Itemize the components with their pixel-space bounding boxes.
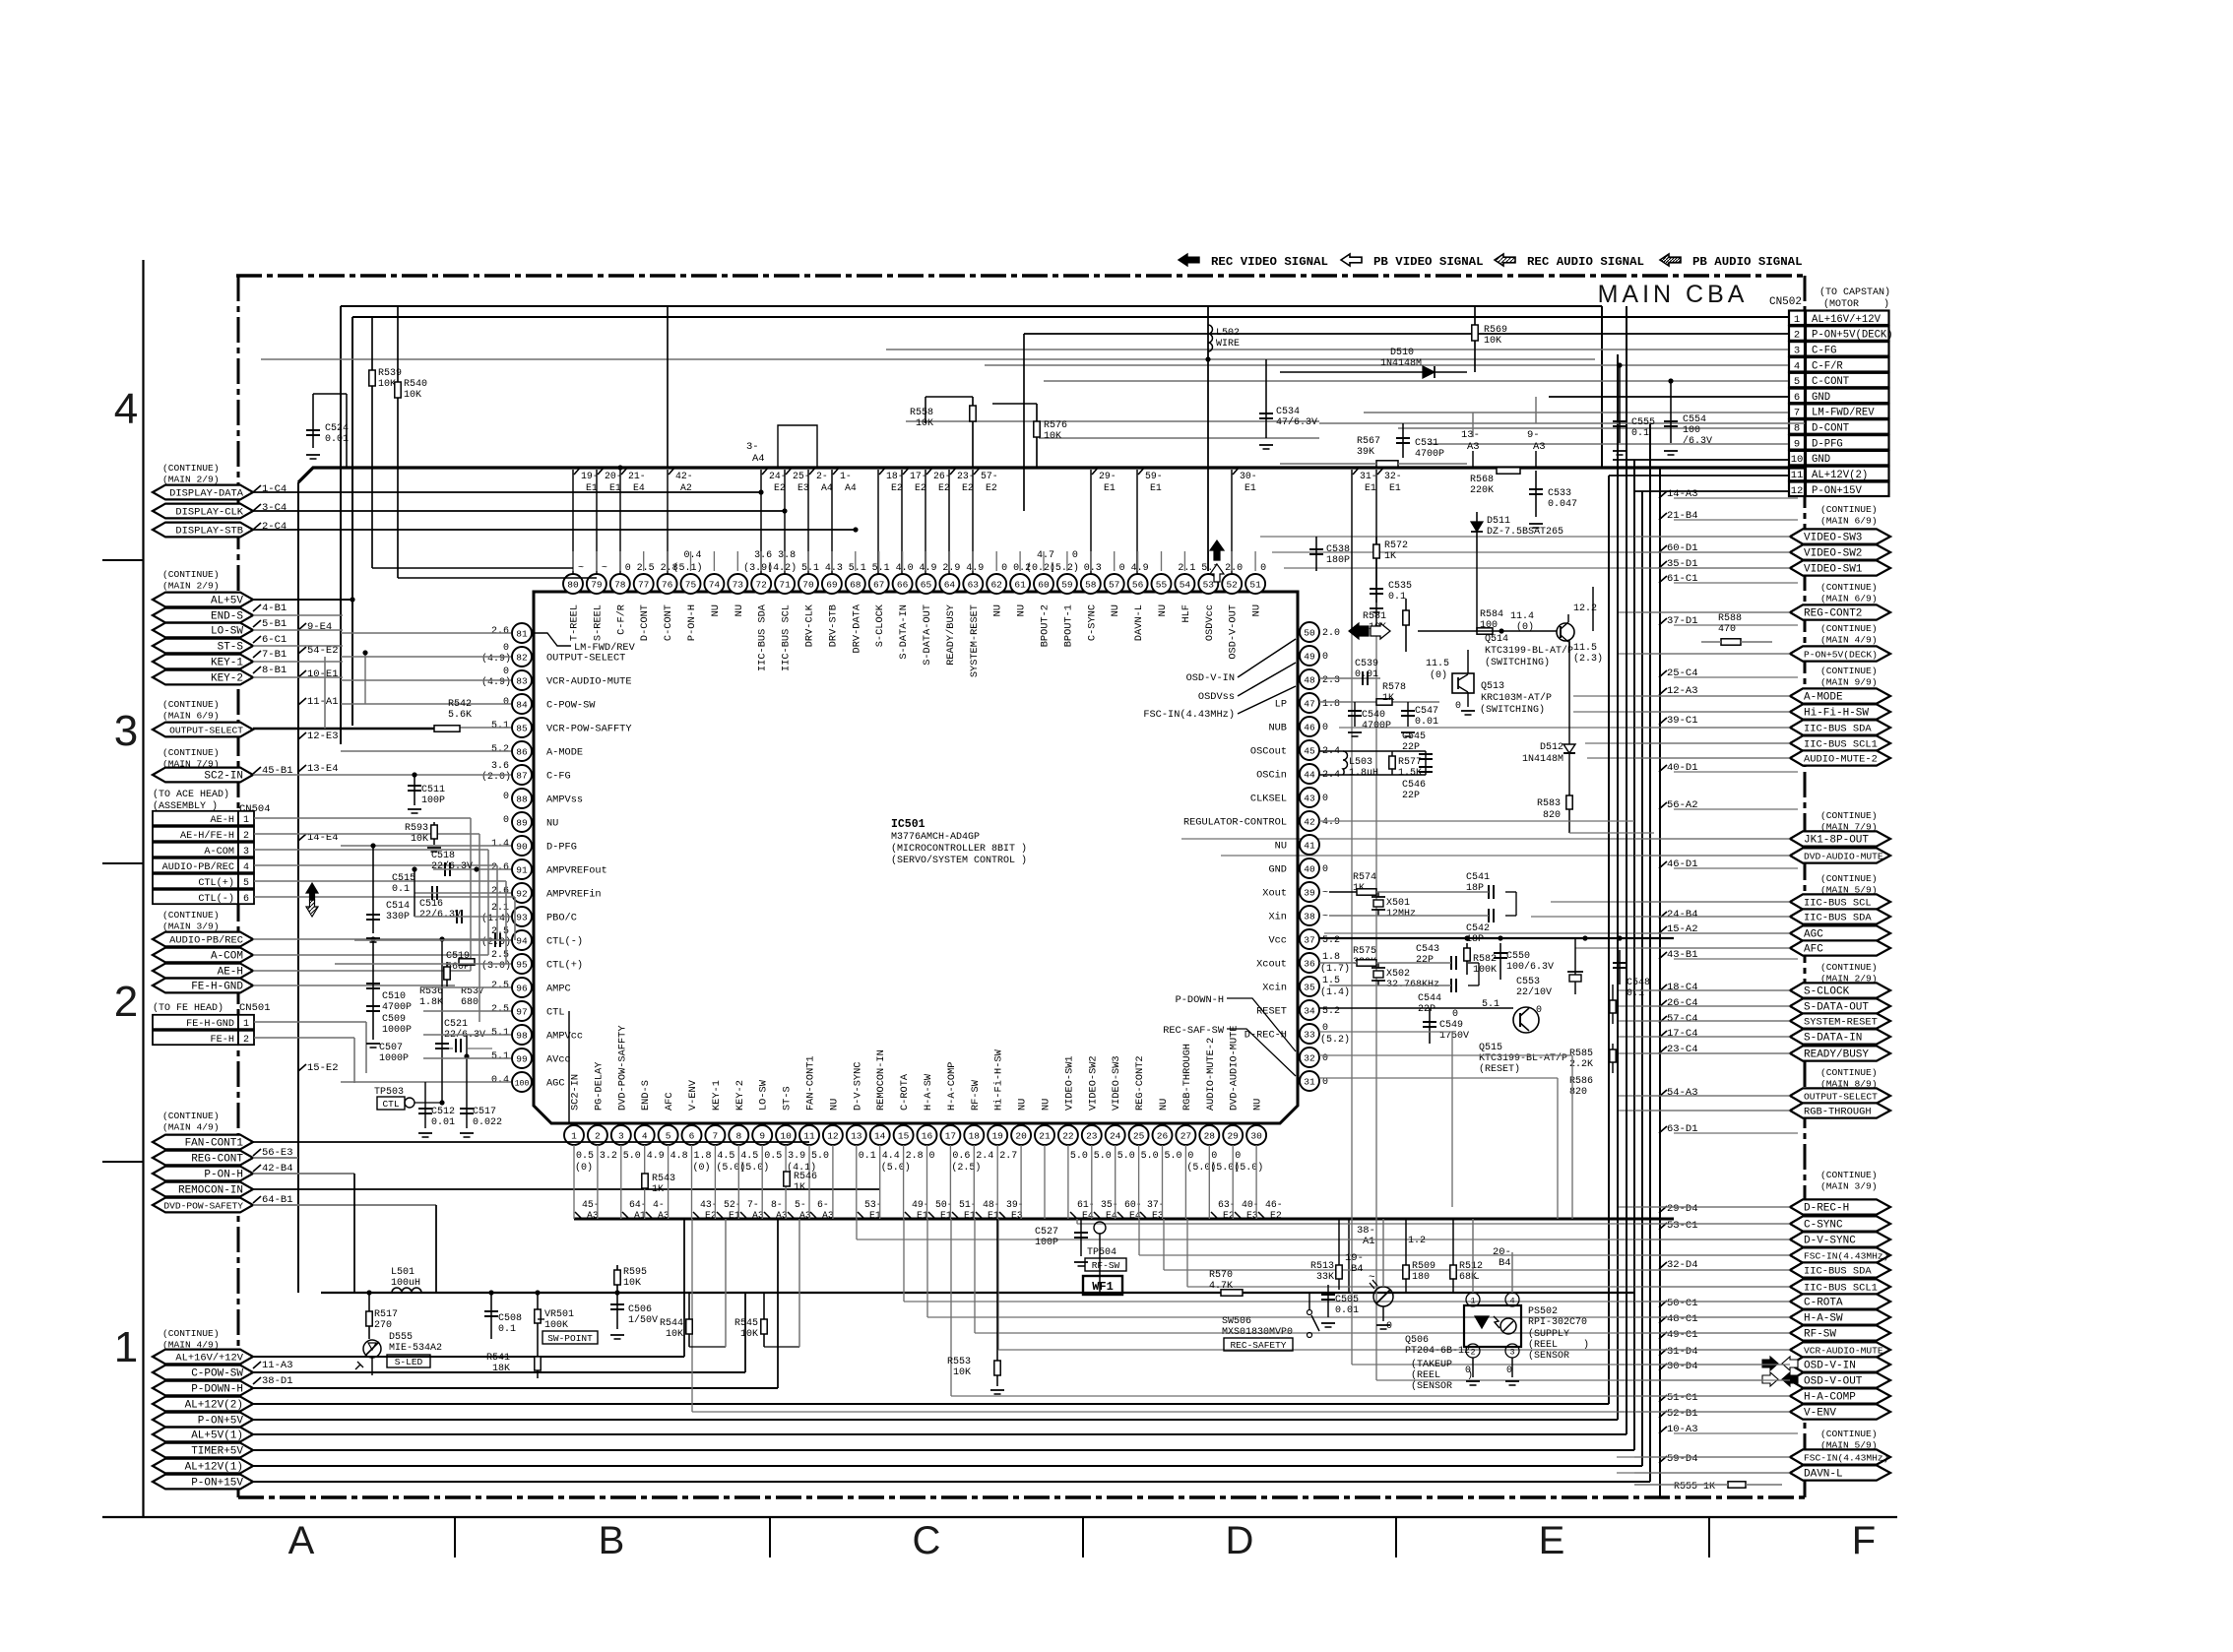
svg-text:D510: D510: [1390, 348, 1414, 358]
svg-text:(5.2): (5.2): [1050, 562, 1079, 574]
svg-text:2.3: 2.3: [1322, 675, 1340, 686]
svg-text:14-A3: 14-A3: [1667, 488, 1698, 500]
svg-text:E2: E2: [774, 482, 786, 493]
svg-text:MIE-534A2: MIE-534A2: [389, 1343, 442, 1354]
svg-text:CTL(+): CTL(+): [198, 877, 234, 889]
svg-text:12-E3: 12-E3: [307, 731, 339, 742]
svg-text:(0): (0): [575, 1162, 593, 1174]
svg-text:A-MODE: A-MODE: [546, 747, 583, 759]
svg-text:680: 680: [461, 997, 478, 1008]
svg-text:52: 52: [1226, 579, 1238, 590]
svg-text:5.0: 5.0: [1070, 1151, 1088, 1162]
svg-text:41: 41: [1304, 840, 1315, 851]
svg-text:25-C4: 25-C4: [1667, 667, 1698, 679]
svg-text:AE-H: AE-H: [218, 967, 243, 979]
svg-text:12MHz: 12MHz: [1386, 909, 1416, 920]
svg-text:IIC-BUS SCL: IIC-BUS SCL: [1804, 898, 1872, 910]
svg-text:60: 60: [1038, 579, 1050, 590]
svg-text:37: 37: [1304, 934, 1314, 945]
svg-text:(TO CAPSTAN): (TO CAPSTAN): [1819, 286, 1890, 298]
svg-text:51-C1: 51-C1: [1667, 1392, 1698, 1404]
svg-text:(TAKEUP: (TAKEUP: [1411, 1359, 1452, 1370]
svg-text:13: 13: [851, 1130, 862, 1141]
svg-text:IIC-BUS SDA: IIC-BUS SDA: [1804, 913, 1872, 924]
svg-text:0.1: 0.1: [392, 884, 410, 895]
svg-text:1.8: 1.8: [1322, 952, 1340, 963]
svg-text:86: 86: [516, 746, 528, 757]
svg-text:X501: X501: [1386, 898, 1410, 909]
svg-text:OUTPUT-SELECT: OUTPUT-SELECT: [1804, 1092, 1878, 1103]
svg-text:1: 1: [243, 1019, 249, 1030]
svg-text:~: ~: [1322, 912, 1328, 922]
svg-text:C539: C539: [1355, 659, 1378, 669]
svg-text:14: 14: [874, 1130, 886, 1141]
svg-text:(TO FE HEAD): (TO FE HEAD): [153, 1002, 223, 1014]
svg-text:13-: 13-: [1461, 429, 1480, 441]
svg-text:AL+5V: AL+5V: [211, 596, 243, 607]
svg-text:P-ON-H: P-ON-H: [686, 604, 698, 641]
svg-text:10-E1: 10-E1: [307, 668, 339, 680]
svg-text:3: 3: [114, 707, 138, 755]
svg-text:33: 33: [1304, 1029, 1315, 1040]
svg-text:0: 0: [1452, 1009, 1458, 1020]
svg-text:DRV-CLK: DRV-CLK: [804, 604, 816, 647]
svg-text:KTC3199-BL-AT/P: KTC3199-BL-AT/P: [1485, 645, 1573, 657]
svg-text:PS502: PS502: [1528, 1306, 1558, 1317]
svg-text:CTL(-): CTL(-): [546, 936, 583, 948]
svg-text:(REEL: (REEL: [1411, 1369, 1440, 1381]
svg-text:C-ROTA: C-ROTA: [1804, 1298, 1843, 1309]
svg-text:10: 10: [780, 1130, 792, 1141]
svg-text:100K: 100K: [1473, 965, 1497, 976]
svg-text:(2.0): (2.0): [481, 771, 511, 783]
svg-text:1: 1: [1470, 1297, 1475, 1306]
svg-text:H-A-COMP: H-A-COMP: [1804, 1392, 1856, 1404]
svg-text:P-ON+5V(DECK): P-ON+5V(DECK): [1804, 650, 1878, 661]
svg-text:AMPVREFin: AMPVREFin: [546, 889, 602, 901]
svg-text:VIDEO-SW1: VIDEO-SW1: [1804, 564, 1863, 576]
svg-text:C533: C533: [1548, 488, 1571, 499]
svg-text:C546: C546: [1402, 780, 1426, 791]
svg-text:55: 55: [1156, 579, 1168, 590]
svg-text:E1: E1: [1389, 482, 1401, 493]
svg-text:T-REEL: T-REEL: [569, 604, 581, 641]
svg-text:4.3: 4.3: [825, 563, 843, 574]
svg-text:2.6: 2.6: [491, 626, 509, 637]
svg-text:E2: E2: [938, 482, 950, 493]
svg-text:(5.0): (5.0): [739, 1162, 769, 1174]
svg-text:P-ON+15V: P-ON+15V: [191, 1478, 243, 1490]
svg-text:PG-DELAY: PG-DELAY: [593, 1062, 605, 1111]
svg-text:FAN-CONT1: FAN-CONT1: [185, 1138, 244, 1150]
svg-text:56-A2: 56-A2: [1667, 799, 1698, 811]
svg-text:0: 0: [1506, 1366, 1512, 1376]
svg-text:NU: NU: [546, 818, 558, 830]
svg-text:C518: C518: [431, 851, 455, 861]
svg-text:3-C4: 3-C4: [262, 502, 287, 514]
svg-text:R578: R578: [1382, 682, 1406, 693]
svg-text:49: 49: [1304, 651, 1315, 662]
svg-text:A-COM: A-COM: [204, 847, 234, 858]
svg-text:1: 1: [1794, 314, 1800, 326]
svg-text:NU: NU: [992, 604, 1004, 616]
svg-text:C-SYNC: C-SYNC: [1804, 1220, 1843, 1232]
svg-text:6-C1: 6-C1: [262, 634, 287, 646]
svg-text:REG-CONT2: REG-CONT2: [1804, 608, 1862, 620]
svg-text:C534: C534: [1276, 407, 1300, 417]
svg-text:4.4: 4.4: [882, 1151, 900, 1162]
svg-text:VIDEO-SW2: VIDEO-SW2: [1804, 548, 1862, 560]
svg-text:45: 45: [1304, 745, 1315, 756]
svg-text:46-: 46-: [1265, 1199, 1283, 1210]
svg-text:83: 83: [516, 675, 528, 686]
svg-text:P-DOWN-H: P-DOWN-H: [1176, 994, 1224, 1006]
svg-text:4.9: 4.9: [1131, 563, 1149, 574]
svg-text:26: 26: [1157, 1130, 1169, 1141]
svg-text:D-V-SYNC: D-V-SYNC: [1804, 1236, 1856, 1247]
svg-text:VCR-AUDIO-MUTE: VCR-AUDIO-MUTE: [1804, 1346, 1883, 1357]
svg-text:36: 36: [1304, 958, 1315, 969]
svg-text:0: 0: [625, 563, 631, 574]
svg-text:65: 65: [921, 579, 932, 590]
svg-text:4: 4: [114, 385, 138, 433]
svg-text:4: 4: [642, 1130, 648, 1141]
svg-text:100: 100: [515, 1079, 530, 1088]
svg-text:20: 20: [1015, 1130, 1027, 1141]
svg-text:69: 69: [826, 579, 838, 590]
svg-text:C531: C531: [1415, 438, 1438, 449]
svg-text:5-B1: 5-B1: [262, 618, 287, 630]
svg-text:A-COM: A-COM: [211, 951, 243, 963]
svg-text:0: 0: [503, 792, 509, 802]
svg-text:10K: 10K: [404, 390, 421, 401]
svg-text:NUB: NUB: [1268, 723, 1287, 734]
svg-text:R553: R553: [947, 1357, 971, 1367]
svg-text:96: 96: [516, 983, 528, 993]
svg-text:DRV-STB: DRV-STB: [827, 604, 839, 647]
svg-text:40: 40: [1304, 863, 1315, 874]
svg-text:42-: 42-: [675, 471, 693, 481]
svg-text:10K: 10K: [953, 1367, 971, 1378]
svg-text:4-: 4-: [653, 1199, 665, 1210]
svg-text:C521: C521: [444, 1019, 468, 1030]
svg-text:13-E4: 13-E4: [307, 763, 339, 775]
svg-text:NU: NU: [1275, 841, 1287, 853]
svg-text:52-B1: 52-B1: [1667, 1408, 1698, 1420]
svg-text:Xout: Xout: [1262, 888, 1287, 900]
svg-text:0.01: 0.01: [1335, 1305, 1359, 1316]
svg-text:Hi-Fi-H-SW: Hi-Fi-H-SW: [1804, 708, 1869, 720]
svg-text:76: 76: [662, 579, 673, 590]
svg-text:C505: C505: [1335, 1295, 1359, 1305]
svg-text:0.1: 0.1: [1388, 592, 1406, 603]
svg-text:E2: E2: [962, 482, 974, 493]
svg-text:R540: R540: [404, 379, 427, 390]
svg-text:0.1: 0.1: [498, 1324, 516, 1335]
svg-text:VIDEO-SW3: VIDEO-SW3: [1804, 533, 1862, 544]
svg-text:75: 75: [685, 579, 697, 590]
svg-text:DAVN-L: DAVN-L: [1133, 604, 1145, 641]
svg-text:2.5: 2.5: [637, 563, 655, 574]
svg-text:~: ~: [1473, 1274, 1480, 1286]
svg-text:(SWITCHING): (SWITCHING): [1480, 704, 1545, 716]
svg-text:OSD-V-IN: OSD-V-IN: [1186, 672, 1235, 684]
svg-text:49-C1: 49-C1: [1667, 1329, 1698, 1341]
svg-text:1K: 1K: [652, 1184, 664, 1195]
svg-text:(CONTINUE): (CONTINUE): [162, 747, 220, 758]
svg-text:R541: R541: [486, 1353, 510, 1364]
svg-text:C547: C547: [1415, 706, 1438, 717]
svg-text:44: 44: [1304, 769, 1315, 780]
svg-text:REC-SAFETY: REC-SAFETY: [1230, 1340, 1286, 1351]
svg-text:97: 97: [516, 1006, 527, 1017]
svg-text:C506: C506: [628, 1304, 652, 1315]
svg-text:3: 3: [1794, 345, 1800, 356]
svg-text:S-CLOCK: S-CLOCK: [874, 604, 886, 647]
svg-text:47: 47: [1304, 698, 1314, 709]
svg-text:3.6: 3.6: [491, 761, 509, 772]
svg-text:LP: LP: [1275, 699, 1287, 711]
svg-text:C514: C514: [386, 901, 410, 912]
svg-text:C515: C515: [392, 873, 415, 884]
svg-text:C-ROTA: C-ROTA: [899, 1073, 911, 1111]
svg-text:C549: C549: [1439, 1020, 1463, 1031]
svg-text:100uH: 100uH: [391, 1278, 420, 1289]
svg-text:(MAIN 6/9): (MAIN 6/9): [162, 711, 220, 722]
svg-text:V-ENV: V-ENV: [1804, 1408, 1836, 1420]
svg-text:0.01: 0.01: [1415, 717, 1438, 728]
svg-text:R582: R582: [1473, 954, 1497, 965]
svg-text:RF-SW: RF-SW: [970, 1079, 982, 1111]
svg-text:SC2-IN: SC2-IN: [570, 1074, 582, 1111]
svg-text:71: 71: [779, 579, 791, 590]
svg-text:0: 0: [1260, 563, 1266, 574]
svg-text:R513: R513: [1310, 1261, 1334, 1272]
svg-text:Xin: Xin: [1268, 912, 1287, 923]
svg-text:11.5: 11.5: [1573, 643, 1597, 654]
svg-text:DZ-7.5BSAT265: DZ-7.5BSAT265: [1487, 527, 1563, 538]
svg-text:4: 4: [1794, 360, 1800, 372]
svg-text:BPOUT-1: BPOUT-1: [1062, 604, 1074, 647]
svg-text:LM-FWD/REV: LM-FWD/REV: [574, 642, 636, 654]
svg-text:A3: A3: [1533, 441, 1546, 453]
svg-text:): ): [1583, 1339, 1589, 1351]
svg-text:38-D1: 38-D1: [262, 1375, 293, 1387]
svg-text:64-: 64-: [629, 1199, 647, 1210]
svg-text:0.022: 0.022: [473, 1117, 502, 1128]
svg-text:98: 98: [516, 1030, 528, 1041]
svg-text:4: 4: [243, 862, 249, 873]
svg-text:24-B4: 24-B4: [1667, 909, 1698, 921]
svg-text:NU: NU: [1158, 1099, 1170, 1111]
svg-text:A4: A4: [752, 453, 765, 465]
svg-text:3-: 3-: [746, 441, 759, 453]
svg-text:H-A-SW: H-A-SW: [1804, 1313, 1843, 1325]
svg-text:(CONTINUE): (CONTINUE): [162, 910, 220, 921]
svg-text:SW-POINT: SW-POINT: [547, 1333, 593, 1344]
svg-text:330P: 330P: [386, 912, 410, 922]
svg-text:73: 73: [733, 579, 744, 590]
svg-text:A4: A4: [821, 482, 833, 493]
svg-text:DVD-AUDIO-MUTE: DVD-AUDIO-MUTE: [1804, 852, 1883, 862]
svg-text:5: 5: [666, 1130, 671, 1141]
svg-text:31-D4: 31-D4: [1667, 1346, 1698, 1358]
svg-text:5.6K: 5.6K: [448, 710, 472, 721]
svg-text:(CONTINUE): (CONTINUE): [1820, 810, 1878, 821]
svg-text:IIC-BUS SDA: IIC-BUS SDA: [1804, 1266, 1872, 1278]
svg-text:C-F/R: C-F/R: [1812, 360, 1843, 372]
svg-text:32: 32: [1304, 1052, 1315, 1063]
svg-text:D-PFG: D-PFG: [546, 842, 577, 854]
svg-text:32-: 32-: [1384, 471, 1402, 481]
svg-text:11.5: 11.5: [1426, 659, 1449, 669]
svg-text:D-CONT: D-CONT: [639, 604, 651, 641]
svg-text:S-DATA-IN: S-DATA-IN: [898, 604, 910, 660]
svg-text:10K: 10K: [1484, 336, 1501, 347]
svg-text:24-: 24-: [769, 471, 787, 481]
svg-text:11.4: 11.4: [1510, 611, 1534, 622]
svg-text:DISPLAY-CLK: DISPLAY-CLK: [175, 507, 243, 519]
svg-text:L503: L503: [1349, 757, 1372, 768]
svg-text:220K: 220K: [1470, 485, 1494, 496]
svg-text:34: 34: [1304, 1005, 1315, 1016]
svg-text:C-POW-SW: C-POW-SW: [191, 1368, 243, 1380]
svg-text:78: 78: [614, 579, 626, 590]
svg-text:S-LED: S-LED: [395, 1357, 423, 1367]
svg-text:C-CONT: C-CONT: [1812, 376, 1849, 388]
svg-text:VIDEO-SW2: VIDEO-SW2: [1087, 1055, 1099, 1111]
svg-text:25: 25: [1133, 1130, 1145, 1141]
svg-text:59-: 59-: [1145, 471, 1163, 481]
svg-text:0.5: 0.5: [576, 1151, 594, 1162]
svg-text:23-: 23-: [957, 471, 975, 481]
svg-text:4: 4: [1509, 1297, 1514, 1306]
svg-text:3.9: 3.9: [788, 1151, 805, 1162]
svg-text:5: 5: [1794, 376, 1800, 388]
svg-text:C540: C540: [1362, 710, 1385, 721]
svg-text:54-E2: 54-E2: [307, 645, 339, 657]
svg-text:C544: C544: [1418, 993, 1441, 1004]
svg-text:IIC-BUS SCL1: IIC-BUS SCL1: [1804, 739, 1878, 751]
svg-text:NU: NU: [828, 1099, 840, 1111]
svg-text:8-B1: 8-B1: [262, 665, 287, 676]
svg-text:C510: C510: [382, 991, 406, 1002]
svg-text:NU: NU: [1252, 1099, 1264, 1111]
svg-text:68: 68: [850, 579, 861, 590]
svg-text:(CONTINUE): (CONTINUE): [1820, 623, 1878, 634]
svg-text:PB AUDIO SIGNAL: PB AUDIO SIGNAL: [1692, 255, 1803, 269]
svg-text:3.8: 3.8: [778, 550, 796, 561]
svg-text:AGC: AGC: [546, 1078, 565, 1090]
svg-text:30-: 30-: [1240, 471, 1257, 481]
svg-text:5.0: 5.0: [1117, 1151, 1135, 1162]
svg-text:12: 12: [827, 1130, 839, 1141]
svg-text:(1.7): (1.7): [1320, 963, 1350, 975]
svg-text:12: 12: [1791, 485, 1804, 497]
svg-text:30-D4: 30-D4: [1667, 1361, 1698, 1372]
svg-text:1-C4: 1-C4: [262, 483, 287, 495]
svg-text:S-CLOCK: S-CLOCK: [1804, 986, 1850, 998]
svg-text:E: E: [1539, 1519, 1565, 1562]
svg-text:FSC-IN(4.43MHz): FSC-IN(4.43MHz): [1804, 1251, 1888, 1262]
svg-text:D555: D555: [389, 1332, 413, 1343]
svg-text:6-: 6-: [817, 1199, 829, 1210]
svg-text:22/6.3V: 22/6.3V: [419, 909, 461, 921]
svg-text:F: F: [1852, 1519, 1876, 1562]
svg-text:0: 0: [1072, 550, 1078, 561]
svg-text:22P: 22P: [1402, 742, 1420, 753]
svg-text:(TO ACE HEAD): (TO ACE HEAD): [153, 789, 229, 800]
svg-text:Xcout: Xcout: [1256, 959, 1287, 971]
svg-text:10: 10: [1791, 454, 1804, 466]
svg-text:4.9: 4.9: [966, 563, 984, 574]
svg-text:4.8: 4.8: [670, 1151, 688, 1162]
svg-text:(MICROCONTROLLER 8BIT: (MICROCONTROLLER 8BIT: [891, 843, 1015, 855]
svg-text:ST-S: ST-S: [218, 642, 244, 654]
svg-text:MXS01830MVP0: MXS01830MVP0: [1222, 1327, 1293, 1338]
svg-text:0.5: 0.5: [764, 1151, 782, 1162]
svg-text:22: 22: [1062, 1130, 1074, 1141]
svg-text:23: 23: [1086, 1130, 1098, 1141]
svg-text:D-REC-H: D-REC-H: [1804, 1203, 1849, 1215]
svg-text:OSD-V-OUT: OSD-V-OUT: [1228, 604, 1240, 660]
svg-text:M3776AMCH-AD4GP: M3776AMCH-AD4GP: [891, 832, 980, 843]
svg-text:25-: 25-: [793, 471, 810, 481]
svg-text:NU: NU: [1041, 1099, 1053, 1111]
svg-text:TP504: TP504: [1087, 1247, 1116, 1258]
svg-text:1: 1: [114, 1323, 138, 1371]
svg-text:8-: 8-: [771, 1199, 783, 1210]
svg-text:0.4: 0.4: [491, 1075, 509, 1086]
svg-text:D512: D512: [1540, 742, 1563, 753]
svg-text:48: 48: [1304, 674, 1315, 685]
svg-text:REC AUDIO SIGNAL: REC AUDIO SIGNAL: [1527, 255, 1644, 269]
svg-text:MAIN CBA: MAIN CBA: [1598, 281, 1749, 308]
svg-text:END-S: END-S: [211, 611, 243, 623]
svg-text:22P: 22P: [1416, 955, 1434, 966]
svg-text:85: 85: [516, 723, 528, 733]
svg-text:(SUPPLY: (SUPPLY: [1528, 1328, 1569, 1340]
svg-text:1/50V: 1/50V: [628, 1314, 658, 1326]
svg-text:KEY-2: KEY-2: [734, 1080, 746, 1111]
svg-text:46-D1: 46-D1: [1667, 858, 1698, 870]
svg-text:4-B1: 4-B1: [262, 603, 287, 614]
svg-text:5.2: 5.2: [491, 744, 509, 755]
svg-text:88: 88: [516, 794, 528, 804]
svg-text:7: 7: [713, 1130, 719, 1141]
svg-text:(4.9): (4.9): [481, 676, 511, 688]
svg-text:17-: 17-: [910, 471, 927, 481]
svg-text:84: 84: [516, 699, 528, 710]
svg-text:9: 9: [1794, 438, 1800, 450]
svg-text:45-: 45-: [582, 1199, 600, 1210]
svg-text:VCR-AUDIO-MUTE: VCR-AUDIO-MUTE: [546, 676, 632, 688]
svg-text:Q506: Q506: [1405, 1335, 1429, 1346]
svg-text:18: 18: [969, 1130, 981, 1141]
svg-text:1.4: 1.4: [491, 839, 509, 850]
svg-text:94: 94: [516, 935, 528, 946]
svg-text:1K: 1K: [1382, 693, 1394, 704]
svg-text:29-: 29-: [1099, 471, 1116, 481]
svg-text:L502: L502: [1216, 328, 1240, 339]
svg-text:28: 28: [1204, 1130, 1216, 1141]
svg-text:39: 39: [1304, 887, 1315, 898]
svg-text:11: 11: [1791, 470, 1804, 481]
svg-text:180P: 180P: [1326, 555, 1350, 566]
svg-text:S-DATA-IN: S-DATA-IN: [1804, 1033, 1862, 1045]
svg-text:0.01: 0.01: [325, 434, 349, 445]
svg-text:5.1: 5.1: [849, 563, 866, 574]
